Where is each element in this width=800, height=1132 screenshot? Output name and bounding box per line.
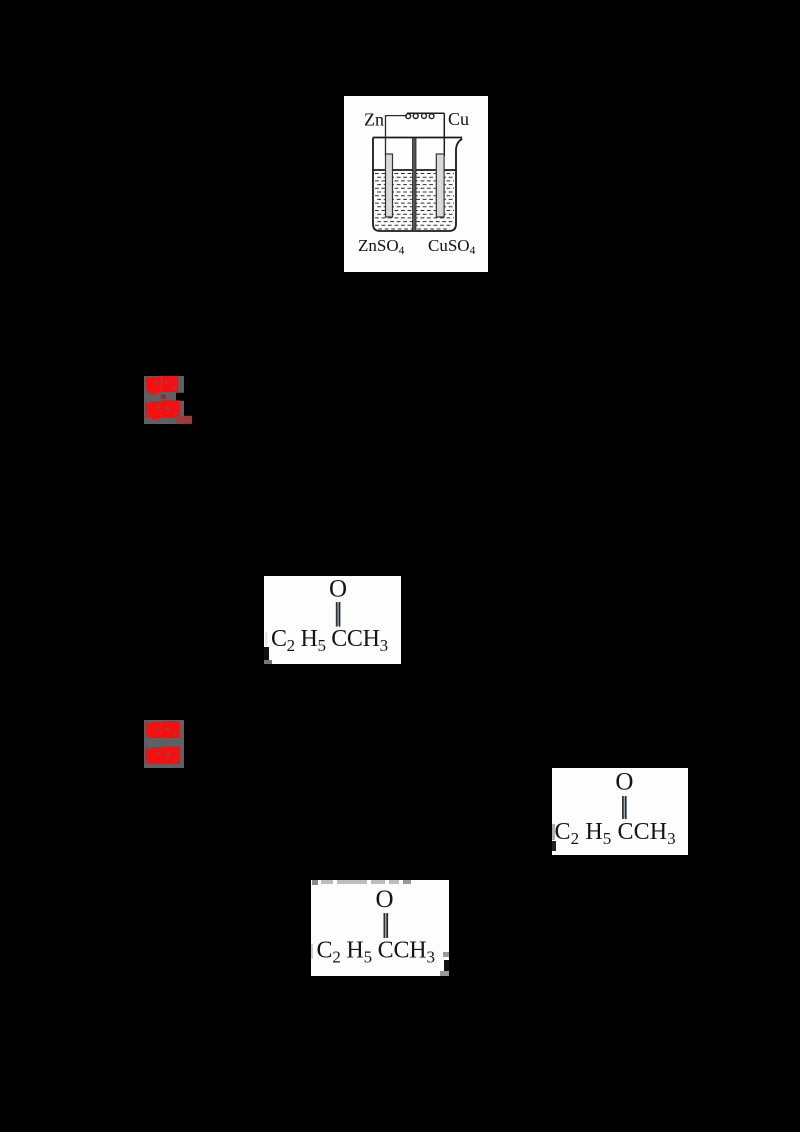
coil loops — [406, 113, 434, 118]
zinc electrode — [386, 154, 393, 217]
copper electrode — [436, 154, 444, 217]
svg-text:O: O — [615, 769, 633, 796]
ketone structure figure B — [552, 768, 688, 855]
galvanic cell figure (Zn-Cu cell) — [344, 96, 488, 272]
double bond — [385, 914, 387, 937]
wire top left segment — [385, 115, 407, 117]
red glyph row 1 — [146, 376, 179, 395]
beaker rim — [373, 137, 462, 139]
liquid surface line — [373, 169, 456, 171]
corner fragment — [265, 632, 268, 646]
red answer stamp block 2 — [144, 720, 184, 768]
red glyph row 1 — [145, 721, 179, 738]
red answer stamp block 1 — [144, 376, 192, 424]
beaker body walls — [373, 138, 462, 232]
svg-text:Zn: Zn — [364, 110, 384, 130]
ketone structure figure C — [311, 880, 449, 976]
svg-text:Cu: Cu — [448, 109, 469, 129]
gray highlight patch — [144, 376, 184, 424]
inter-row dark red mark — [161, 395, 166, 400]
svg-text:ZnSO4: ZnSO4 — [358, 236, 405, 257]
top edge text remnants — [312, 880, 411, 885]
ketone structure figure A (C2H5COCH3) — [264, 576, 401, 664]
double bond — [623, 797, 625, 818]
svg-text:O: O — [376, 886, 394, 913]
left edge tick — [311, 944, 313, 959]
left edge fragment — [552, 824, 555, 840]
coil top line — [407, 112, 444, 114]
svg-text:C2 H5 CCH3: C2 H5 CCH3 — [317, 937, 435, 966]
wire left vertical — [385, 116, 387, 156]
wire right vertical — [443, 113, 445, 156]
double bond — [337, 603, 339, 626]
red glyph row 2 — [145, 747, 180, 765]
red glyph row 2 — [145, 400, 180, 419]
svg-text:C2 H5 CCH3: C2 H5 CCH3 — [271, 626, 388, 655]
porous separator — [413, 138, 417, 231]
liquid dash pattern — [375, 174, 454, 230]
dark red block — [176, 416, 192, 424]
bottom right fragment — [443, 952, 449, 957]
svg-text:O: O — [329, 576, 347, 602]
svg-text:CuSO4: CuSO4 — [428, 236, 476, 257]
svg-text:C2 H5 CCH3: C2 H5 CCH3 — [555, 819, 676, 848]
gray highlight patch — [144, 720, 184, 768]
